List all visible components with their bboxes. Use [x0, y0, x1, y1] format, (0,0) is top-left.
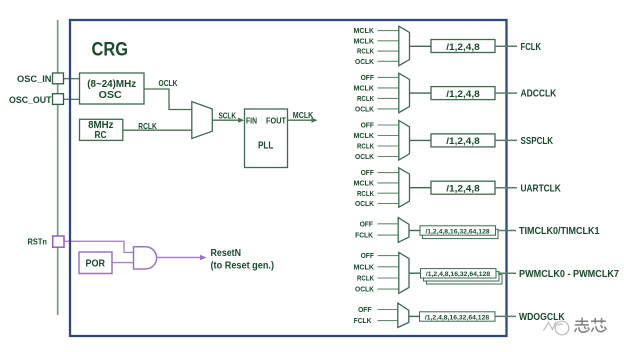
svg-text:RCLK: RCLK — [357, 274, 374, 283]
oscillator RC — [80, 119, 123, 140]
svg-text:MCLK: MCLK — [354, 262, 375, 271]
svg-text:OSC: OSC — [99, 90, 122, 101]
svg-text:MCLK: MCLK — [354, 26, 375, 35]
svg-text:PLL: PLL — [258, 139, 274, 151]
mux r6 — [399, 252, 409, 293]
svg-text:POR: POR — [85, 258, 105, 269]
wire PWMCLK out — [498, 272, 516, 274]
wire r2 inputs — [378, 77, 399, 109]
svg-text:/1,2,4,8: /1,2,4,8 — [446, 42, 480, 53]
oscillator OSC — [80, 73, 145, 104]
divider r6 shadow2 — [427, 275, 503, 284]
wire SSPCLK out — [495, 139, 517, 141]
mux r7 — [398, 303, 409, 327]
divider r6 — [421, 269, 497, 278]
svg-text:OCLK: OCLK — [355, 199, 375, 208]
divider r5 — [420, 226, 496, 235]
frame CRG block border — [70, 20, 507, 336]
wire r3 inputs — [378, 125, 399, 157]
svg-text:SCLK: SCLK — [219, 111, 237, 121]
svg-text:OFF: OFF — [361, 121, 375, 130]
svg-text:OFF: OFF — [358, 305, 372, 314]
svg-text:OFF: OFF — [360, 219, 374, 228]
wire RCLK — [123, 129, 192, 131]
divider r6 shadow1 — [424, 272, 500, 281]
svg-text:RSTn: RSTn — [28, 236, 48, 246]
svg-text:OFF: OFF — [361, 73, 375, 82]
svg-text:MCLK: MCLK — [354, 179, 375, 188]
wire mux to divider r2 — [410, 92, 432, 94]
divider r2 — [431, 87, 495, 100]
svg-text:OCLK: OCLK — [355, 105, 375, 114]
svg-text:OFF: OFF — [361, 168, 375, 177]
wire TIMCLK out — [498, 230, 516, 232]
svg-text:ADCCLK: ADCCLK — [521, 89, 557, 100]
svg-text:FIN: FIN — [246, 117, 257, 126]
svg-text:/1,2,4,8,16,32,64,128: /1,2,4,8,16,32,64,128 — [426, 271, 490, 278]
wire WDOGCLK out — [495, 315, 516, 317]
mux r3 — [399, 121, 410, 161]
mux r1 — [399, 26, 410, 65]
wire mux to divider r4 — [410, 187, 432, 189]
svg-text:RCLK: RCLK — [357, 94, 374, 103]
svg-text:OSC_IN: OSC_IN — [17, 74, 52, 84]
watermark logo — [544, 321, 569, 335]
svg-text:SSPCLK: SSPCLK — [521, 136, 554, 147]
wire MCLK — [288, 119, 314, 121]
svg-text:/1,2,4,8: /1,2,4,8 — [446, 184, 480, 195]
wire mux to divider r6 — [409, 272, 421, 274]
divider r3 — [431, 134, 495, 147]
svg-text:/1,2,4,8: /1,2,4,8 — [446, 89, 480, 100]
svg-text:OCLK: OCLK — [355, 57, 375, 66]
wire r5 inputs — [378, 224, 399, 235]
wire FCLK out — [495, 45, 517, 47]
svg-text:OCLK: OCLK — [159, 78, 179, 88]
svg-text:PWMCLK0 - PWMCLK7: PWMCLK0 - PWMCLK7 — [519, 269, 619, 280]
mux M1 (SCLK select) — [192, 102, 213, 139]
wire ResetN — [156, 257, 202, 259]
svg-text:RCLK: RCLK — [357, 47, 374, 56]
divider r1 — [431, 40, 495, 53]
svg-text:UARTCLK: UARTCLK — [521, 183, 562, 194]
wire mux to divider r1 — [410, 45, 432, 47]
svg-text:/1,2,4,8,16,32,64,128: /1,2,4,8,16,32,64,128 — [425, 228, 489, 235]
wire SCLK — [212, 119, 239, 121]
wire OSC_OUT to OSC — [64, 98, 80, 100]
watermark text xin — [591, 318, 606, 332]
mux r2 — [399, 73, 410, 113]
svg-text:MCLK: MCLK — [354, 36, 375, 45]
svg-text:FCLK: FCLK — [355, 231, 373, 240]
svg-text:/1,2,4,8,16,32,64,128: /1,2,4,8,16,32,64,128 — [425, 314, 489, 321]
svg-text:(8~24)MHz: (8~24)MHz — [87, 79, 136, 90]
pll U1 — [245, 109, 288, 168]
svg-text:WDOGCLK: WDOGCLK — [519, 312, 565, 323]
svg-text:MCLK: MCLK — [293, 110, 314, 120]
wire UARTCLK out — [495, 187, 517, 189]
svg-text:FCLK: FCLK — [354, 316, 372, 325]
wire OSC_IN to OSC — [64, 78, 80, 80]
svg-text:ResetN: ResetN — [211, 247, 242, 259]
wire RSTn — [64, 241, 134, 252]
watermark text zhi — [575, 318, 590, 333]
wire mux to divider r7 — [409, 315, 420, 317]
svg-text:TIMCLK0/TIMCLK1: TIMCLK0/TIMCLK1 — [519, 226, 600, 237]
wire mux to divider r3 — [410, 139, 432, 141]
wire r4 inputs — [378, 173, 399, 204]
wire POR out — [112, 262, 134, 264]
mux r5 — [398, 218, 409, 243]
divider r4 — [431, 181, 495, 194]
and-gate G1 — [134, 247, 157, 269]
divider r5 shadow — [423, 229, 499, 238]
svg-text:MCLK: MCLK — [354, 131, 375, 140]
mux r4 — [399, 168, 410, 208]
svg-text:/1,2,4,8: /1,2,4,8 — [446, 136, 480, 147]
svg-text:FCLK: FCLK — [521, 42, 542, 53]
wire ADCCLK out — [495, 92, 517, 94]
svg-text:RC: RC — [95, 130, 107, 141]
svg-text:OCLK: OCLK — [355, 285, 375, 294]
svg-text:FOUT: FOUT — [266, 117, 286, 126]
svg-text:CRG: CRG — [92, 39, 129, 61]
wire r7 inputs — [378, 310, 398, 321]
svg-text:OSC_OUT: OSC_OUT — [9, 95, 52, 105]
wire r1 inputs — [378, 31, 399, 62]
wire r6 inputs — [378, 256, 399, 290]
wire mux to divider r5 — [409, 230, 420, 232]
por POR — [79, 252, 112, 274]
svg-text:RCLK: RCLK — [357, 189, 374, 198]
svg-text:RCLK: RCLK — [138, 121, 157, 131]
svg-text:(to Reset gen.): (to Reset gen.) — [211, 261, 275, 272]
wire OCLK — [144, 89, 192, 110]
node bus line (left pin rail) — [57, 20, 59, 315]
divider r7 — [420, 312, 496, 321]
svg-text:OFF: OFF — [361, 251, 375, 260]
svg-text:OCLK: OCLK — [355, 152, 375, 161]
svg-text:MCLK: MCLK — [354, 84, 375, 93]
svg-text:RCLK: RCLK — [357, 142, 374, 151]
